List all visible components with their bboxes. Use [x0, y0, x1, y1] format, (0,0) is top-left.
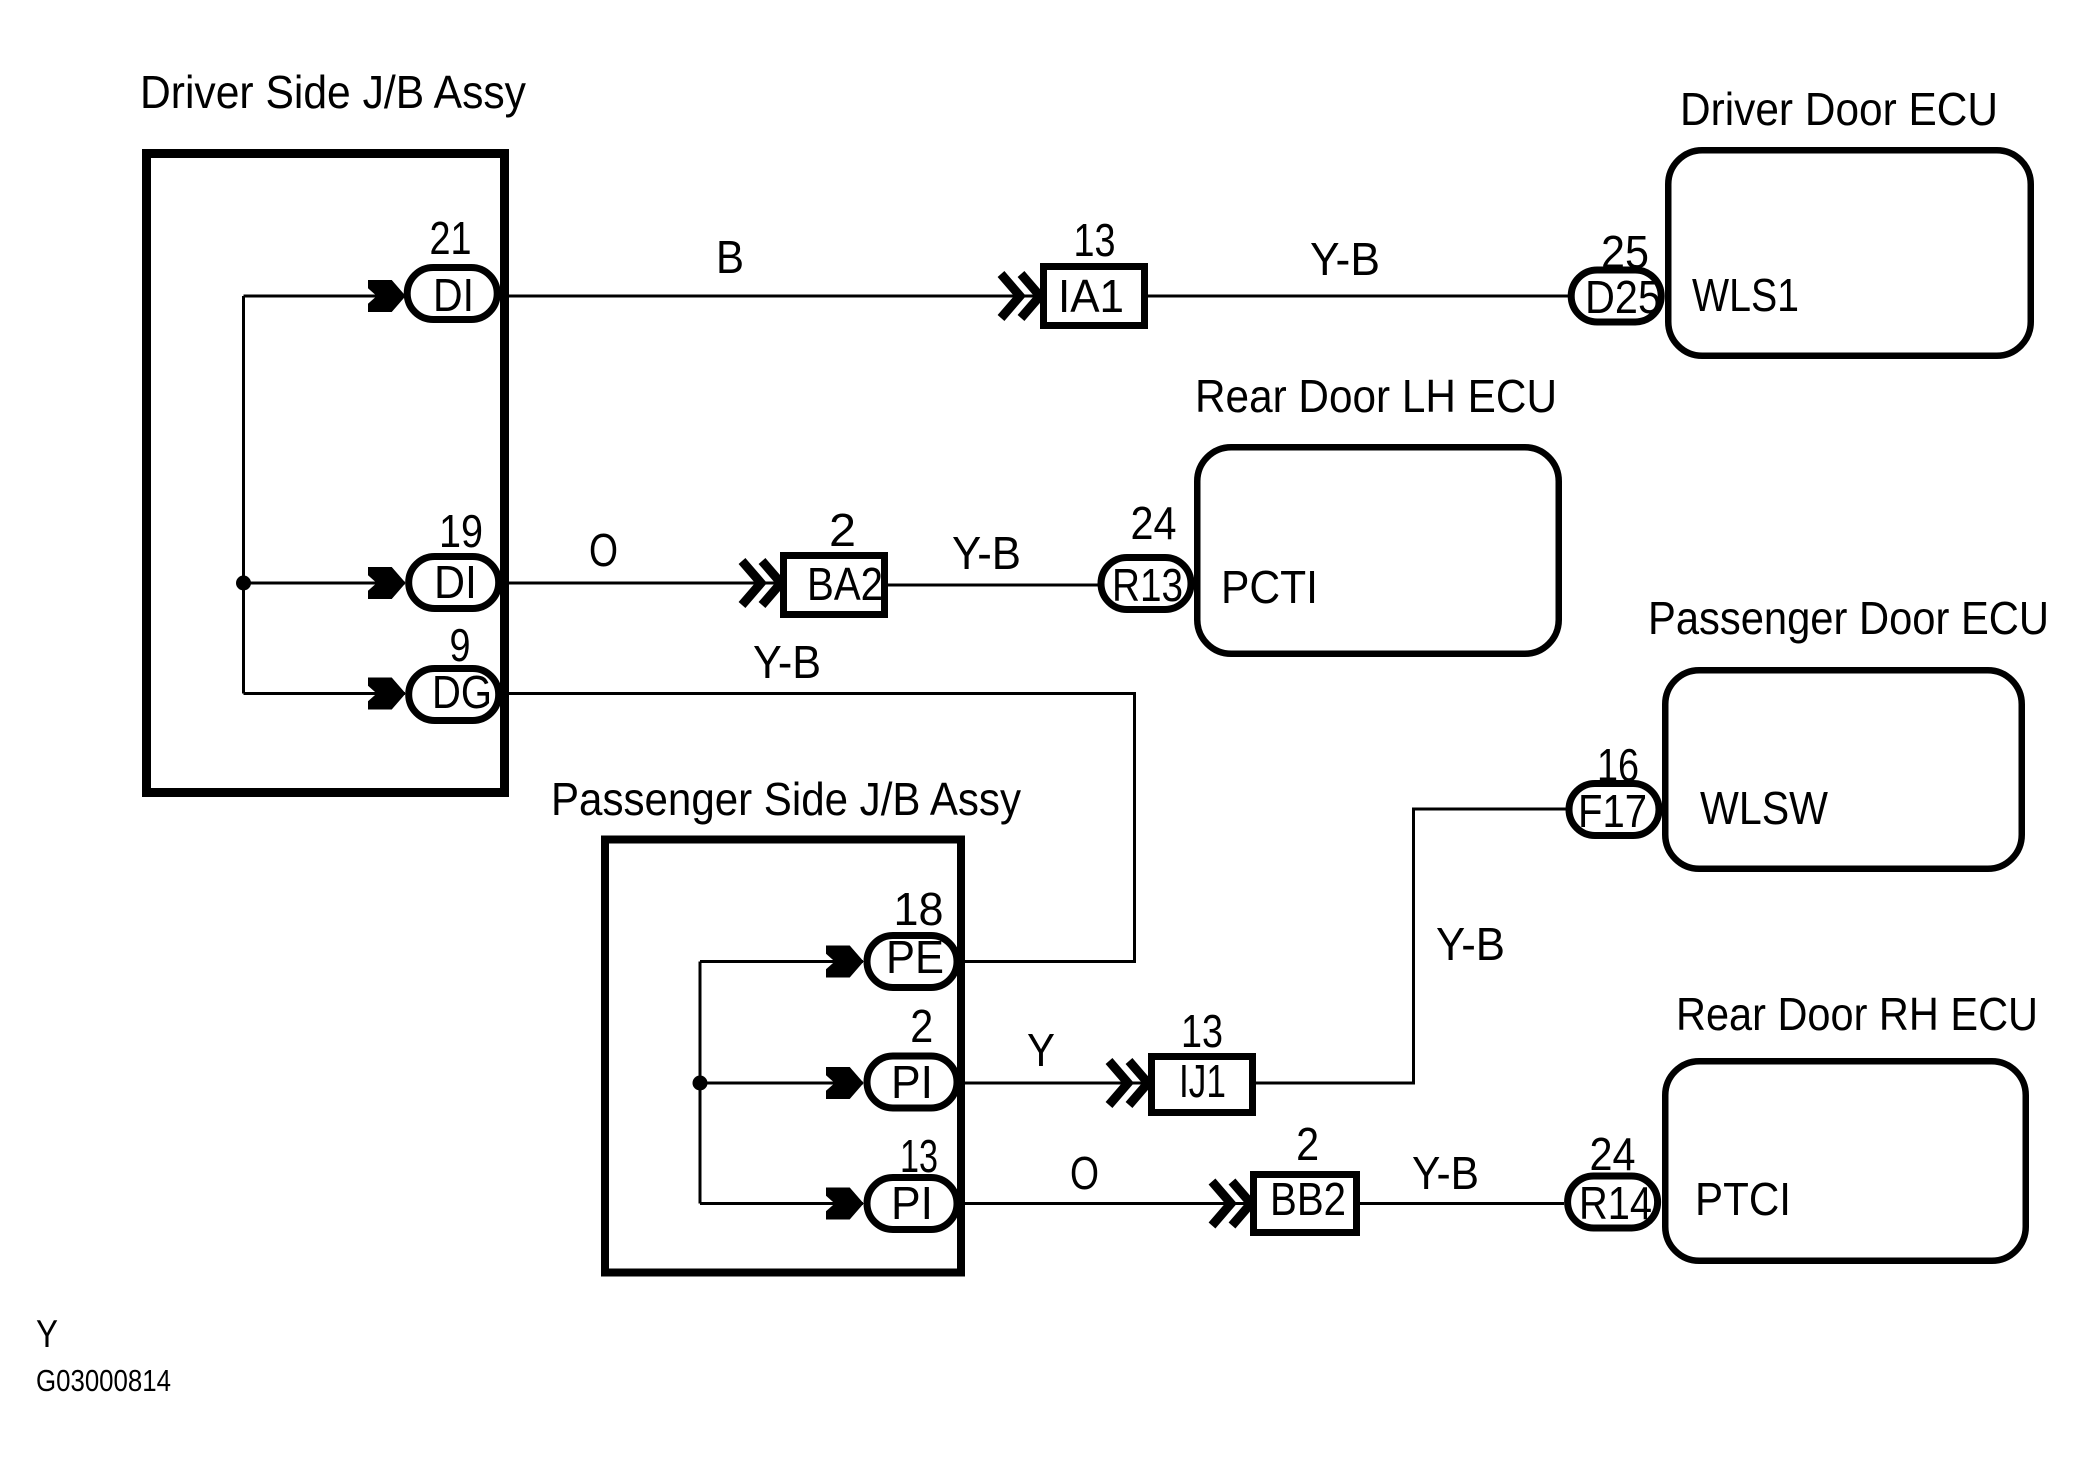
svg-text:2: 2 [910, 1000, 933, 1052]
svg-text:Rear Door LH ECU: Rear Door LH ECU [1195, 370, 1557, 422]
wire Y-B: IJ1 to F17 [1256, 809, 1567, 1083]
svg-text:13: 13 [1074, 214, 1116, 266]
svg-text:Passenger Door ECU: Passenger Door ECU [1648, 592, 2049, 644]
svg-text:2: 2 [1296, 1118, 1319, 1170]
svg-text:18: 18 [894, 883, 944, 935]
arrow into DI19 [369, 568, 406, 599]
svg-text:D25: D25 [1585, 271, 1661, 323]
svg-text:Y: Y [1027, 1024, 1055, 1076]
svg-text:F17: F17 [1578, 785, 1647, 837]
svg-text:DG: DG [432, 666, 492, 718]
arrow into PI13 [827, 1188, 864, 1219]
connector DG pin 9 [409, 619, 499, 721]
svg-text:Passenger Side J/B Assy: Passenger Side J/B Assy [551, 773, 1021, 825]
connector R13 pin 24 [1101, 497, 1191, 611]
chevrons before BB2 [1212, 1182, 1251, 1226]
svg-text:R13: R13 [1112, 559, 1183, 611]
wire Y-B: BA2 to R13 [888, 584, 1103, 587]
ECU U1 Driver Door ECU [1668, 83, 2031, 356]
wire Y-B: IA1 to D25 [1148, 295, 1569, 298]
wire O: PI13 to BB2 [961, 1202, 1251, 1205]
svg-text:25: 25 [1601, 226, 1649, 278]
wire Y: PI2 to IJ1 [961, 1082, 1149, 1085]
inline connector IA1 pin 13 [1044, 214, 1145, 326]
ECU U3 Passenger Door ECU [1648, 592, 2049, 869]
svg-text:13: 13 [900, 1130, 938, 1182]
inline connector BB2 pin 2 [1254, 1118, 1357, 1233]
ECU U2 Rear Door LH ECU [1195, 370, 1559, 654]
svg-text:O: O [589, 524, 618, 576]
svg-text:B: B [716, 231, 744, 283]
wire Y-B: BB2 to R14 [1360, 1202, 1564, 1205]
svg-text:Y-B: Y-B [753, 636, 821, 688]
svg-text:DI: DI [434, 556, 477, 608]
svg-text:13: 13 [1181, 1005, 1223, 1057]
wire PI2 internal [700, 1082, 863, 1085]
junction block Passenger Side J/B Assy [551, 773, 1021, 1273]
connector PE pin 18 [867, 883, 957, 988]
arrow into DI21 [369, 281, 406, 312]
wire vertical driver JB [242, 296, 245, 694]
wire passenger JB vertical [699, 962, 702, 1204]
svg-text:Y-B: Y-B [952, 527, 1021, 579]
svg-text:19: 19 [439, 505, 483, 557]
svg-text:Y-B: Y-B [1412, 1147, 1479, 1199]
wire Y-B: DG to PE [502, 694, 1135, 962]
connector F17 pin 16 [1569, 739, 1659, 837]
wire DI21 internal [244, 295, 406, 298]
svg-text:24: 24 [1131, 497, 1177, 549]
svg-text:R14: R14 [1579, 1177, 1652, 1229]
inline connector IJ1 pin 13 [1152, 1005, 1253, 1113]
ECU U4 Rear Door RH ECU [1665, 988, 2038, 1261]
arrow into DG [369, 678, 406, 709]
junction block Driver Side J/B Assy [140, 66, 526, 793]
connector PI pin 2 [867, 1000, 957, 1108]
svg-text:PTCI: PTCI [1695, 1173, 1791, 1225]
svg-text:WLS1: WLS1 [1692, 269, 1799, 321]
svg-text:2: 2 [829, 504, 856, 556]
svg-text:Y-B: Y-B [1436, 918, 1505, 970]
chevrons before IJ1 [1109, 1061, 1148, 1105]
svg-text:Y-B: Y-B [1310, 233, 1380, 285]
wire B: DI21 to IA1 [500, 295, 1041, 298]
wire PI13 internal [700, 1202, 863, 1205]
wire O: DI19 to BA2 [502, 582, 781, 585]
svg-text:Y: Y [36, 1313, 58, 1356]
arrow into PI2 [827, 1068, 864, 1099]
svg-text:Rear Door RH ECU: Rear Door RH ECU [1676, 988, 2038, 1040]
chevrons before IA1 [1001, 274, 1040, 318]
svg-text:16: 16 [1597, 739, 1639, 791]
svg-text:Driver Door ECU: Driver Door ECU [1680, 83, 1998, 135]
connector DI pin 21 [407, 212, 497, 321]
svg-text:BA2: BA2 [807, 558, 883, 610]
arrow into PE [827, 946, 864, 977]
svg-text:PI: PI [891, 1056, 933, 1108]
svg-text:21: 21 [430, 212, 472, 264]
connector PI pin 13 [867, 1130, 957, 1230]
node junction dot passenger JB [693, 1076, 708, 1091]
svg-text:WLSW: WLSW [1700, 782, 1829, 834]
svg-text:O: O [1070, 1147, 1099, 1199]
wire PE internal [700, 960, 863, 963]
svg-text:PCTI: PCTI [1221, 561, 1318, 613]
node junction dot driver JB [236, 576, 251, 591]
svg-text:PI: PI [891, 1177, 933, 1229]
connector DI pin 19 [409, 505, 499, 609]
connector R14 pin 24 [1568, 1128, 1658, 1229]
svg-text:BB2: BB2 [1270, 1173, 1346, 1225]
wire DI19 internal [244, 582, 406, 585]
svg-text:9: 9 [450, 619, 471, 671]
connector D25 pin 25 [1571, 226, 1661, 323]
svg-text:PE: PE [886, 931, 944, 983]
svg-text:IA1: IA1 [1058, 270, 1124, 322]
svg-text:24: 24 [1590, 1128, 1636, 1180]
svg-text:DI: DI [433, 269, 474, 321]
inline connector BA2 pin 2 [784, 504, 885, 615]
svg-text:IJ1: IJ1 [1179, 1055, 1226, 1107]
chevrons before BA2 [742, 561, 781, 605]
svg-text:G03000814: G03000814 [36, 1363, 171, 1398]
wire DG internal [244, 692, 406, 695]
svg-text:Driver Side J/B Assy: Driver Side J/B Assy [140, 66, 526, 118]
